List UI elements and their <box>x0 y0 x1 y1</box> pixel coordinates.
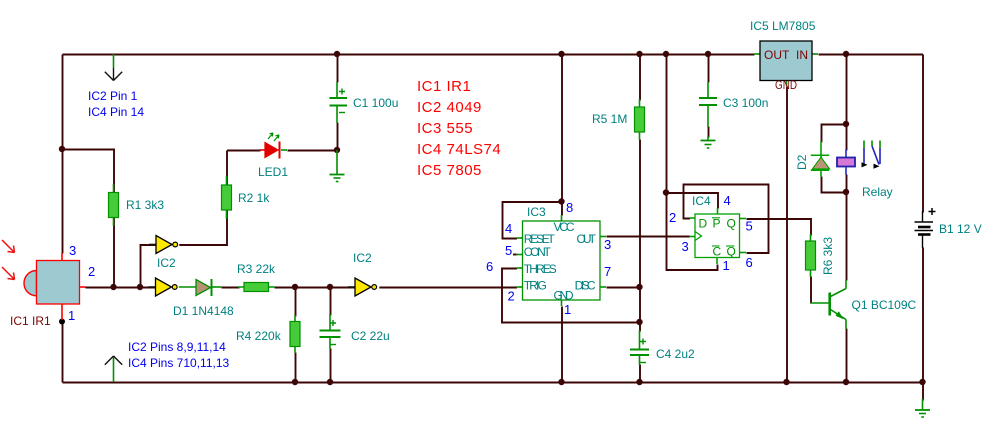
svg-text:IC2: IC2 <box>157 256 176 270</box>
wire battery column upper <box>922 55 924 213</box>
label IC3 pin numbers <box>486 200 611 317</box>
node D2 bottom junction <box>843 189 849 195</box>
svg-text:Q: Q <box>727 217 736 231</box>
svg-text:5: 5 <box>505 243 512 258</box>
label IC4 pin numbers <box>669 193 753 273</box>
node emitter bottom <box>843 379 849 385</box>
wire THRES branch <box>502 269 640 323</box>
wire D2 bottom branch <box>822 177 847 193</box>
svg-text:D2: D2 <box>795 154 809 170</box>
node LED ground junction <box>334 147 340 153</box>
node C3 top <box>705 51 711 57</box>
node RESET VCC junction <box>558 198 564 204</box>
diode D2 <box>811 141 830 177</box>
svg-text:C3 100n: C3 100n <box>723 96 768 110</box>
node C2 bottom <box>327 379 333 385</box>
wire left rail upper <box>62 55 64 254</box>
svg-text:C: C <box>713 245 722 259</box>
label IC4 internal letters <box>699 217 736 259</box>
node C4 bottom <box>636 379 642 385</box>
svg-text:IC2 Pin 1: IC2 Pin 1 <box>88 89 138 103</box>
svg-text:B1 12 V: B1 12 V <box>939 222 982 236</box>
inverter IC2b lower <box>149 278 178 296</box>
svg-text:R2 1k: R2 1k <box>238 191 270 205</box>
LED LED1 <box>259 133 287 159</box>
annotation down arrow IC2 Pin1 supply <box>105 54 122 81</box>
wire IC3 OUT to IC4 clock <box>607 236 690 238</box>
wire top rail left <box>63 54 755 56</box>
node VCC2 top <box>663 51 669 57</box>
svg-text:6: 6 <box>746 255 753 270</box>
label IC3 pin names <box>524 220 597 303</box>
wire IC3 VCC column <box>561 55 563 216</box>
wire top rail right <box>819 54 924 56</box>
inverter IC2c before TRIG <box>348 278 377 296</box>
svg-text:IC1 IR1: IC1 IR1 <box>417 78 471 95</box>
svg-text:IC3 555: IC3 555 <box>417 120 473 137</box>
wire R5 C4 column <box>639 55 641 101</box>
wire upper inverter output to R2 <box>179 151 227 246</box>
svg-text:3: 3 <box>604 237 611 252</box>
capacitor C4 <box>630 330 649 365</box>
transistor Q1 BC109C <box>811 280 847 329</box>
svg-text:GND: GND <box>554 289 574 303</box>
wire D2 top branch <box>822 125 847 143</box>
resistor R3 <box>238 283 275 292</box>
svg-text:5: 5 <box>746 219 753 234</box>
relay coil <box>837 149 855 175</box>
wire LED cathode to C1 junction <box>288 150 338 152</box>
node R4 bottom <box>292 379 298 385</box>
node upper inverter branch <box>137 284 143 290</box>
wire 7805 GND column <box>786 87 788 383</box>
wire junction to upper inverter input <box>141 245 157 288</box>
wire R6 bottom to base <box>810 277 812 304</box>
wire IC4 Q to R6 <box>747 219 812 236</box>
wire C3 column <box>708 55 710 83</box>
svg-text:2: 2 <box>88 264 95 279</box>
svg-text:IC1 IR1: IC1 IR1 <box>10 314 51 328</box>
svg-text:8: 8 <box>566 200 573 215</box>
svg-text:THRES: THRES <box>524 262 557 276</box>
svg-text:7: 7 <box>604 264 611 279</box>
svg-text:LED1: LED1 <box>258 165 288 179</box>
svg-text:IC4: IC4 <box>692 194 711 208</box>
svg-text:IC2 4049: IC2 4049 <box>417 99 482 116</box>
annotation up arrow IC2/IC4 ground pins <box>105 356 122 382</box>
svg-text:P: P <box>713 217 721 231</box>
node IC3 VCC top <box>558 51 564 57</box>
node IC4 pin4 junction <box>663 189 669 195</box>
wire left rail lower <box>62 323 64 383</box>
diode D1 1N4148 <box>179 279 222 296</box>
svg-text:R1 3k3: R1 3k3 <box>126 198 164 212</box>
wire IC4 Qbar to D feedback loop <box>684 185 769 254</box>
svg-text:2: 2 <box>508 289 515 304</box>
IR receiver IC1 IR1 <box>24 253 86 320</box>
svg-text:C4 2u2: C4 2u2 <box>656 347 695 361</box>
svg-text:Q1 BC109C: Q1 BC109C <box>852 298 917 312</box>
svg-text:R4 220k: R4 220k <box>236 329 282 343</box>
svg-text:D1 1N4148: D1 1N4148 <box>173 304 234 318</box>
svg-text:IC5 7805: IC5 7805 <box>417 162 482 179</box>
node THRES C4 junction <box>636 319 642 325</box>
svg-text:TRIG: TRIG <box>524 279 547 293</box>
svg-text:1: 1 <box>723 258 730 273</box>
svg-text:D: D <box>699 217 708 231</box>
resistor R6 <box>806 234 816 277</box>
wire R4 column <box>295 288 297 317</box>
node R1 top junction <box>59 146 65 152</box>
svg-text:IC4 74LS74: IC4 74LS74 <box>417 141 501 158</box>
node DISC junction <box>636 284 642 290</box>
ground under C3 <box>701 136 716 148</box>
node IR1 pin1 black dot <box>59 319 65 325</box>
IC4 74LS74 flip-flop box <box>690 208 747 264</box>
svg-text:IC4 Pins 710,11,13: IC4 Pins 710,11,13 <box>128 356 230 370</box>
capacitor C3 <box>699 82 717 127</box>
wire bottom right ground stem <box>922 383 924 401</box>
svg-text:Relay: Relay <box>862 185 893 199</box>
wire IC3 GND column <box>561 307 563 383</box>
inverter IC2a upper <box>149 236 178 254</box>
wire R1 branch <box>63 150 115 288</box>
node C2 top <box>327 284 333 290</box>
node C1 top <box>334 51 340 57</box>
IR arrows pointing at IC1 <box>2 240 15 280</box>
relay contacts <box>862 141 881 169</box>
svg-text:C2 22u: C2 22u <box>351 329 390 343</box>
node IC3 GND bottom <box>558 379 564 385</box>
wire relay column to collector <box>846 193 848 281</box>
voltage regulator IC5 LM7805 <box>754 41 818 86</box>
svg-text:R5 1M: R5 1M <box>592 112 627 126</box>
svg-text:1: 1 <box>564 302 571 317</box>
svg-text:4: 4 <box>505 221 512 236</box>
svg-text:3: 3 <box>69 243 76 258</box>
svg-text:R3 22k: R3 22k <box>237 262 276 276</box>
wire inverter2 out segment (D1 R3 to TRIG) <box>222 287 240 289</box>
resistor R5 <box>635 99 645 140</box>
overlines for P C Q bars <box>712 218 735 246</box>
resistor R2 <box>222 176 232 219</box>
wire IC3 DISC to R5 column <box>607 287 641 289</box>
svg-text:Q: Q <box>727 245 736 259</box>
svg-text:IN: IN <box>796 48 808 62</box>
wire R2 top to LED anode <box>227 150 261 152</box>
svg-text:OUT: OUT <box>577 232 597 246</box>
wire IC4 pin4 branch <box>667 193 719 209</box>
svg-text:CONT: CONT <box>524 245 552 259</box>
wire relay column middle <box>846 175 848 193</box>
capacitor C1 <box>330 82 348 123</box>
svg-text:IC4 Pin 14: IC4 Pin 14 <box>88 105 144 119</box>
wire relay column top <box>846 55 848 151</box>
svg-text:IC3: IC3 <box>527 205 546 219</box>
svg-text:R6 3k3: R6 3k3 <box>821 237 835 275</box>
svg-text:DISC: DISC <box>575 279 596 293</box>
svg-text:IC5 LM7805: IC5 LM7805 <box>750 19 816 33</box>
capacitor C2 <box>320 314 341 349</box>
svg-text:2: 2 <box>669 210 676 225</box>
resistor R1 <box>109 184 119 226</box>
svg-text:IC2 Pins 8,9,11,14: IC2 Pins 8,9,11,14 <box>128 340 226 354</box>
label red parts list <box>417 78 501 179</box>
node R1 bottom junction <box>110 284 116 290</box>
wire C1 column <box>337 55 339 83</box>
node D2 top junction <box>843 121 849 127</box>
node R4 top <box>292 284 298 290</box>
svg-text:VCC: VCC <box>554 220 575 234</box>
node battery bottom <box>919 379 925 385</box>
svg-text:1: 1 <box>68 308 75 323</box>
svg-text:IC2: IC2 <box>353 251 372 265</box>
node 7805 GND bottom <box>783 379 789 385</box>
svg-text:6: 6 <box>486 259 493 274</box>
svg-text:4: 4 <box>724 193 731 208</box>
svg-text:3: 3 <box>682 239 689 254</box>
wire C2 column <box>330 288 332 316</box>
battery B1 <box>915 208 936 248</box>
svg-text:GND: GND <box>775 78 797 92</box>
resistor R4 <box>290 315 300 353</box>
node relay top <box>843 51 849 57</box>
ground under LED junction <box>330 150 345 182</box>
svg-text:OUT: OUT <box>764 48 790 62</box>
label OUT IN GND of 7805 <box>764 48 808 92</box>
ground bottom right <box>915 399 930 417</box>
wire emitter to bottom rail <box>846 329 848 383</box>
wire RESET branch <box>503 202 563 239</box>
node R5 top <box>636 51 642 57</box>
wire battery column lower <box>922 248 924 383</box>
wire IR pin2 to inverter <box>86 287 157 289</box>
svg-text:C1 100u: C1 100u <box>353 96 398 110</box>
wire bottom rail <box>63 382 924 384</box>
wire VCC column x666 to IC4 pin1 <box>667 55 718 271</box>
IC3 555 timer box <box>513 215 606 306</box>
